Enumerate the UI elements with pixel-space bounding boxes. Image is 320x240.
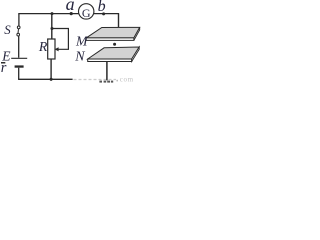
svg-text:r: r [1, 60, 7, 76]
watermark dark fragments [99, 81, 102, 83]
wiper arrow head [55, 47, 59, 51]
wire top-right horizontal [94, 13, 119, 15]
wire capacitor top lead [118, 14, 120, 31]
galvanometer G circle [79, 4, 94, 19]
svg-text:R: R [38, 39, 48, 54]
svg-text:N: N [74, 50, 85, 65]
wire bottom rail [18, 78, 73, 80]
svg-text:M: M [75, 33, 89, 48]
wire rheostat top lead [51, 14, 53, 40]
wire left vertical between switch and battery [18, 36, 20, 58]
junction on bottom rail [50, 78, 53, 81]
junction on rheostat top lead [51, 27, 54, 30]
watermark dot [116, 80, 118, 82]
wire wiper loop [52, 29, 68, 50]
resistor R (rheostat box) [48, 39, 55, 59]
switch S [17, 26, 20, 36]
svg-text:com: com [120, 76, 134, 84]
wire bottom rail faint continuation (washed out by watermark) [74, 79, 117, 81]
node a junction dot [70, 12, 73, 15]
wire left vertical upper [18, 14, 20, 27]
battery E r : short thick plate [15, 65, 24, 67]
svg-text:a: a [66, 0, 75, 14]
junction on top wire at rheostat [51, 12, 54, 15]
capacitor plate N (3D slab) [88, 47, 140, 62]
wire rheostat bottom lead [50, 59, 52, 80]
svg-text:b: b [98, 0, 106, 15]
charged particle between plates [113, 43, 116, 46]
capacitor plate M (3D slab) [86, 27, 140, 40]
node b junction dot [102, 12, 105, 15]
battery E r : long plate [11, 57, 27, 59]
label E underline mark [1, 62, 5, 64]
wire battery to bottom rail [18, 68, 20, 80]
svg-text:G: G [82, 6, 91, 20]
svg-text:S: S [4, 23, 11, 37]
wire capacitor bottom lead [106, 62, 108, 81]
wire top-left horizontal [18, 13, 79, 15]
